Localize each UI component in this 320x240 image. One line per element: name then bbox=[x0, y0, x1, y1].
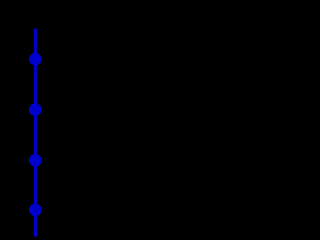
node D (commit dot 4) bbox=[29, 204, 42, 217]
node B (commit dot 2) bbox=[29, 103, 42, 116]
node C (commit dot 3) bbox=[29, 154, 42, 167]
wire (vertical branch line) bbox=[34, 29, 37, 237]
node A (commit dot 1) bbox=[29, 53, 42, 66]
